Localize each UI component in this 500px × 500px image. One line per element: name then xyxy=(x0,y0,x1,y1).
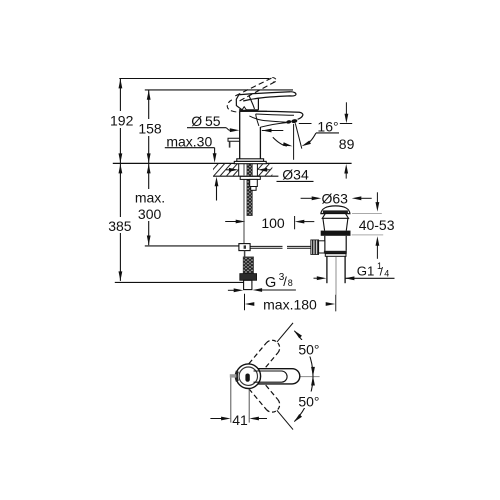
label 158 xyxy=(136,119,164,136)
svg-text:100: 100 xyxy=(261,215,285,231)
label max. 300 xyxy=(132,189,168,221)
lever blade solid xyxy=(239,92,291,95)
faucet base steps xyxy=(237,159,264,162)
svg-text:158: 158 xyxy=(138,121,162,137)
label 40-53 dimension xyxy=(376,192,378,204)
G3/8 supply connection xyxy=(243,257,253,274)
label 50deg upper xyxy=(296,340,323,357)
dimension max.300 vertical xyxy=(148,164,150,246)
top view: handle solid xyxy=(252,369,300,384)
waste lever knob xyxy=(319,241,325,253)
label 385 xyxy=(105,217,135,233)
lever dashed raised position xyxy=(235,78,272,96)
pop-up rod vertical xyxy=(243,163,245,243)
O34 arrows at deck hole xyxy=(226,169,232,171)
pop-up knob at rear of body xyxy=(228,138,240,141)
extension line top (192) xyxy=(119,78,269,80)
svg-text:Ø63: Ø63 xyxy=(321,190,348,206)
svg-text:192: 192 xyxy=(110,112,134,128)
16 degree spout angle xyxy=(299,123,312,125)
svg-text:300: 300 xyxy=(138,206,162,222)
dimension 385 vertical xyxy=(119,164,121,281)
waste tailpipe xyxy=(326,256,328,283)
faucet head block xyxy=(236,95,241,110)
svg-text:G: G xyxy=(265,275,276,291)
label 89 dimension xyxy=(345,102,347,116)
svg-text:8: 8 xyxy=(288,278,293,288)
svg-text:max.180: max.180 xyxy=(263,297,317,313)
svg-text:385: 385 xyxy=(108,218,132,234)
deck / countertop section xyxy=(113,162,352,164)
label 192 xyxy=(106,111,135,128)
label max.180 dimension xyxy=(244,294,246,311)
pop-up waste: plug dome xyxy=(321,206,350,214)
top view: dashed lever positions +-50deg xyxy=(249,318,299,373)
mounting nut xyxy=(250,179,258,186)
svg-text:max.30: max.30 xyxy=(166,133,212,149)
handle left nub xyxy=(230,374,237,377)
mounting washer xyxy=(240,176,260,179)
svg-text:Ø 55: Ø 55 xyxy=(191,113,220,129)
waste flange xyxy=(321,231,351,236)
extension line hose end (385) xyxy=(115,281,253,283)
top view: 50deg arcs xyxy=(294,331,313,376)
waste upper body xyxy=(322,214,348,219)
label 100 dimension (spout reach) xyxy=(225,221,236,223)
label 50deg lower xyxy=(296,392,323,409)
waste lower body xyxy=(324,236,326,251)
dimension 158 vertical xyxy=(148,90,150,163)
aerator xyxy=(286,120,292,124)
label 41 dimension xyxy=(230,378,232,423)
faucet body column xyxy=(240,111,261,159)
faucet shank threaded below deck xyxy=(247,163,252,215)
svg-text:G1: G1 xyxy=(357,263,375,278)
waste bottom nut xyxy=(324,251,347,254)
handle slot xyxy=(245,374,249,382)
spout outline xyxy=(240,111,303,119)
svg-text:41: 41 xyxy=(232,412,248,428)
pop-up rod horizontal with connector xyxy=(239,244,250,251)
dimension 192 vertical xyxy=(119,79,121,164)
svg-text:16°: 16° xyxy=(317,119,338,135)
svg-text:4: 4 xyxy=(384,269,389,279)
G3/8 arrows xyxy=(228,289,235,291)
svg-text:89: 89 xyxy=(339,136,355,152)
svg-text:/: / xyxy=(283,274,287,289)
svg-text:50°: 50° xyxy=(298,393,319,409)
extension line rod level (max.300) xyxy=(145,245,239,247)
svg-text:Ø34: Ø34 xyxy=(282,167,309,183)
extension line lever top (158) xyxy=(145,89,293,91)
top view: centerline xyxy=(291,376,320,378)
svg-text:50°: 50° xyxy=(298,341,319,357)
svg-text:40-53: 40-53 xyxy=(359,217,395,233)
svg-text:max.: max. xyxy=(135,190,165,206)
